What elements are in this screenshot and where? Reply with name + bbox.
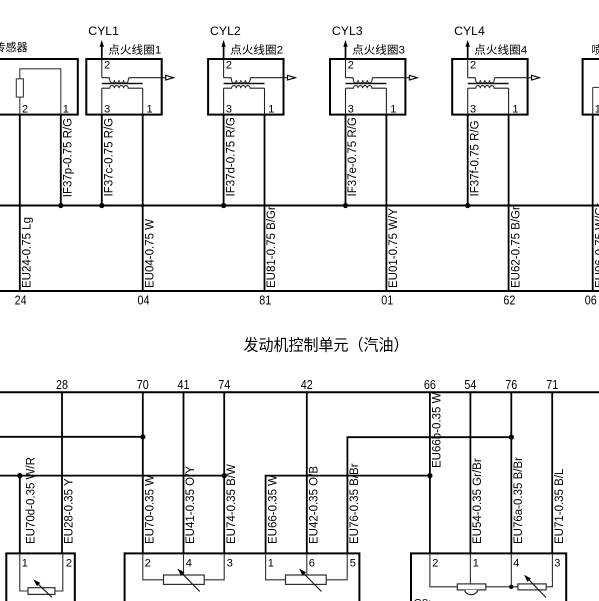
wire coil 4 pin1 -> ECU (EU62-0.75 B/Gr) <box>508 115 510 291</box>
svg-text:1: 1 <box>22 558 28 570</box>
wire sensor pin1 -> bus (IF37p-0.75 R/G) <box>60 115 62 206</box>
injector internal coil (partial) <box>593 87 599 114</box>
svg-text:2: 2 <box>145 558 151 570</box>
coil 4 secondary winding <box>468 86 509 115</box>
box M pin 1 <box>268 558 274 570</box>
svg-text:62: 62 <box>503 294 515 308</box>
label 点火线圈2 <box>230 43 283 57</box>
svg-text:74: 74 <box>218 378 230 392</box>
coil 4 pin 1 <box>512 104 518 116</box>
wire label EU42-0.35 O/B <box>309 466 321 544</box>
wire ECU 41 -> box M pin4 (EU41-0.35 O/Y) <box>183 392 185 553</box>
ECU bottom pin 54 <box>464 378 476 392</box>
wire ECU 71 -> box R pin3 (EU71-0.35 B/L) <box>551 392 553 553</box>
svg-text:6: 6 <box>309 558 315 570</box>
wire label EU76a-0.35 B/Br <box>513 457 525 544</box>
coil 1 output arrow <box>166 75 174 80</box>
svg-text:5: 5 <box>350 558 356 570</box>
wire label EU28-0.35 Y <box>64 478 76 544</box>
ECU top pin 01 <box>381 294 393 308</box>
junction net76 junction <box>509 435 514 440</box>
svg-text:EU81-0.75 B/Gr: EU81-0.75 B/Gr <box>266 206 278 288</box>
wire label IF37e-0.75 R/G <box>347 117 359 196</box>
svg-text:42: 42 <box>301 378 313 392</box>
arrow up CYL3 <box>343 40 347 59</box>
box L internal wiring <box>20 553 63 591</box>
svg-text:EU76-0.35 B/Br: EU76-0.35 B/Br <box>349 463 361 544</box>
svg-text:点火线圈3: 点火线圈3 <box>352 43 405 57</box>
wire net76 branch to box M pin5 <box>347 437 511 553</box>
svg-text:1: 1 <box>390 104 396 116</box>
arrow up CYL2 <box>221 40 225 59</box>
svg-text:IF37p-0.75 R/G: IF37p-0.75 R/G <box>63 118 75 197</box>
coil 1 pin 1 <box>147 104 153 116</box>
svg-text:传感器: 传感器 <box>0 41 28 54</box>
svg-text:1: 1 <box>63 104 69 116</box>
junction sensor pin1 on bus <box>58 203 63 208</box>
wire label EU54-0.35 Gr/Br <box>472 458 484 544</box>
svg-text:IF37e-0.75 R/G: IF37e-0.75 R/G <box>347 117 359 196</box>
wire ECU 66 -> box R pin2 (EU66b-0.35 W) <box>429 392 431 553</box>
svg-text:EU24-0.75 Lg: EU24-0.75 Lg <box>22 217 34 288</box>
injector pin 1 <box>595 104 599 116</box>
label CYL1 <box>88 24 119 38</box>
wire coil 2 pin1 -> ECU (EU81-0.75 B/Gr) <box>264 115 266 291</box>
svg-text:3: 3 <box>348 104 354 116</box>
wire label EU70d-0.35 W/R <box>25 457 37 544</box>
junction coil 3 pin3 on bus <box>343 203 348 208</box>
coil 4 pin 2 <box>470 60 476 72</box>
coil 3 pin 3 <box>348 104 354 116</box>
variable resistor box M left <box>164 569 205 592</box>
variable resistor box M right <box>286 569 327 592</box>
ECU top pin 24 <box>15 294 27 308</box>
coil 3 core <box>346 83 387 85</box>
ignition coil 3 (点火线圈3) box <box>330 59 405 115</box>
svg-text:3: 3 <box>227 558 233 570</box>
svg-text:EU06-0.75 W/Gr: EU06-0.75 W/Gr <box>594 203 599 288</box>
svg-text:EU66b-0.35 W: EU66b-0.35 W <box>432 392 444 468</box>
svg-text:3: 3 <box>470 104 476 116</box>
coil 3 pin 1 <box>390 104 396 116</box>
svg-text:28: 28 <box>56 378 68 392</box>
coil 4 primary winding <box>468 59 533 83</box>
svg-text:EU28-0.35 Y: EU28-0.35 Y <box>64 478 76 544</box>
sensor pin 2 <box>22 104 28 116</box>
label CYL2 <box>210 24 241 38</box>
coil 2 pin 2 <box>226 60 232 72</box>
wire coil 1 pin1 -> ECU (EU04-0.75 W) <box>142 115 144 291</box>
sensor internal resistor <box>16 79 23 97</box>
coil 3 primary winding <box>346 59 411 83</box>
coil 2 output arrow <box>288 75 296 80</box>
junction box R internal junction <box>509 585 513 589</box>
ECU top pin 04 <box>138 294 150 308</box>
svg-text:1: 1 <box>595 104 599 116</box>
svg-text:G8:: G8: <box>414 598 432 601</box>
ECU label 发动机控制单元（汽油） <box>244 336 409 354</box>
svg-text:点火线圈4: 点火线圈4 <box>474 43 527 57</box>
svg-text:EU74-0.35 B/W: EU74-0.35 B/W <box>226 464 238 544</box>
svg-text:EU62-0.75 B/Gr: EU62-0.75 B/Gr <box>510 206 522 288</box>
svg-text:CYL4: CYL4 <box>454 24 485 38</box>
box R pin 4 <box>513 558 519 570</box>
svg-text:01: 01 <box>381 294 393 308</box>
bus wire (ignition coils common) <box>0 205 599 207</box>
svg-text:66: 66 <box>424 378 436 392</box>
svg-text:81: 81 <box>259 294 271 308</box>
svg-text:4: 4 <box>513 558 519 570</box>
wire label IF37c-0.75 R/G <box>104 118 116 197</box>
box L pin 1 <box>22 558 28 570</box>
svg-text:1: 1 <box>473 558 479 570</box>
svg-text:3: 3 <box>226 104 232 116</box>
ECU bottom pin 70 <box>137 378 149 392</box>
svg-text:2: 2 <box>104 60 110 72</box>
wire ECU 28 -> box L pin2 (EU28-0.35 Y) <box>61 392 63 553</box>
svg-text:发动机控制单元（汽油）: 发动机控制单元（汽油） <box>244 336 409 354</box>
wire ECU 54 -> box R pin1 (EU54-0.35 Gr/Br) <box>469 392 471 553</box>
ignition coil 4 (点火线圈4) box <box>452 59 527 115</box>
svg-text:EU04-0.75 W: EU04-0.75 W <box>144 219 156 288</box>
variable resistor box R right <box>518 575 546 598</box>
wire coil 1 pin3 -> bus (IF37c-0.75 R/G) <box>101 115 103 206</box>
coil 3 secondary winding <box>346 86 387 115</box>
svg-text:EU71-0.35 B/L: EU71-0.35 B/L <box>554 468 566 544</box>
wire label EU71-0.35 B/L <box>554 468 566 544</box>
wire label IF37d-0.75 R/G <box>225 117 237 196</box>
wire horizontal net to left edge (EU70d) <box>0 475 224 477</box>
wire ECU 76 -> box R pin4 (EU76a-0.35 B/Br) <box>510 392 512 553</box>
wire injector pin1 -> ECU pin 06 (EU06-0.75 W/Gr) <box>592 115 594 291</box>
svg-text:EU70-0.35 W: EU70-0.35 W <box>145 475 157 544</box>
svg-text:CYL3: CYL3 <box>332 24 363 38</box>
svg-text:1: 1 <box>147 104 153 116</box>
ignition coil 1 (点火线圈1) box <box>86 59 161 115</box>
wire coil 4 pin3 -> bus (IF37f-0.75 R/G) <box>467 115 469 206</box>
wire label EU76-0.35 B/Br <box>349 463 361 544</box>
coil 1 primary winding <box>102 59 167 83</box>
svg-text:点火线圈1: 点火线圈1 <box>108 43 161 57</box>
svg-text:2: 2 <box>432 558 438 570</box>
coil 2 primary winding <box>224 59 289 83</box>
wire label EU66b-0.35 W <box>432 392 444 468</box>
junction coil 1 pin3 on bus <box>99 203 104 208</box>
box R internal wiring <box>430 553 553 586</box>
bottom-left box (sensor with variable resistor) <box>6 553 75 601</box>
svg-text:CYL2: CYL2 <box>210 24 241 38</box>
wire label EU62-0.75 B/Gr <box>510 206 522 288</box>
arrow up CYL1 <box>100 40 104 59</box>
ECU bottom edge <box>0 391 599 393</box>
bottom-middle box (6-pin sensor unit) <box>125 553 360 601</box>
sensor internal wiring <box>20 69 61 115</box>
coil 4 core <box>468 83 509 85</box>
svg-text:IF37d-0.75 R/G: IF37d-0.75 R/G <box>225 117 237 196</box>
coil 3 output arrow <box>409 75 417 80</box>
coil 4 output arrow <box>532 75 540 80</box>
ECU top pin 62 <box>503 294 515 308</box>
ECU top pin 06 <box>585 294 597 308</box>
svg-text:CYL1: CYL1 <box>88 24 119 38</box>
injector box 喷油器 (cut off at right) <box>583 43 599 115</box>
svg-text:EU41-0.35 O/Y: EU41-0.35 O/Y <box>185 466 197 544</box>
wire branch -> box L pin1 (EU70d-0.35 W/R) <box>19 476 21 554</box>
label 点火线圈3 <box>352 43 405 57</box>
box R partial label <box>414 598 432 601</box>
wire label IF37p-0.75 R/G <box>63 118 75 197</box>
svg-text:24: 24 <box>15 294 27 308</box>
svg-text:1: 1 <box>512 104 518 116</box>
wire label EU66-0.35 W <box>267 475 279 544</box>
sensor box 传感器 (cut off at left) <box>0 41 78 115</box>
coil 2 secondary winding <box>224 86 265 115</box>
coil 1 pin 3 <box>104 104 110 116</box>
wire coil 2 pin3 -> bus (IF37d-0.75 R/G) <box>223 115 225 206</box>
wire branch to left edge (net 70) <box>0 436 143 438</box>
coil 2 core <box>224 83 265 85</box>
svg-text:2: 2 <box>470 60 476 72</box>
ECU bottom pin 76 <box>505 378 517 392</box>
junction coil 4 pin3 on bus <box>465 203 470 208</box>
ECU bottom pin 41 <box>178 378 190 392</box>
svg-text:EU76a-0.35 B/Br: EU76a-0.35 B/Br <box>513 457 525 544</box>
wire sensor pin2 -> ECU pin 24 (EU24-0.75 Lg) <box>19 115 21 291</box>
svg-text:IF37c-0.75 R/G: IF37c-0.75 R/G <box>104 118 116 197</box>
svg-text:EU42-0.35 O/B: EU42-0.35 O/B <box>309 466 321 544</box>
ECU bottom pin 71 <box>546 378 558 392</box>
label 点火线圈4 <box>474 43 527 57</box>
box R pin 1 <box>473 558 479 570</box>
coil 1 core <box>102 83 143 85</box>
wire label IF37f-0.75 R/G <box>469 120 481 196</box>
svg-text:3: 3 <box>104 104 110 116</box>
label CYL4 <box>454 24 485 38</box>
svg-text:点火线圈2: 点火线圈2 <box>230 43 283 57</box>
svg-text:EU54-0.35 Gr/Br: EU54-0.35 Gr/Br <box>472 458 484 544</box>
svg-text:2: 2 <box>226 60 232 72</box>
ECU bottom pin 28 <box>56 378 68 392</box>
ECU bottom pin 74 <box>218 378 230 392</box>
svg-text:喷油器: 喷油器 <box>592 43 599 57</box>
ECU top pin 81 <box>259 294 271 308</box>
box M pin 6 <box>309 558 315 570</box>
svg-text:IF37f-0.75 R/G: IF37f-0.75 R/G <box>469 120 481 196</box>
svg-text:2: 2 <box>22 104 28 116</box>
wire label EU01-0.75 W/Y <box>388 208 400 288</box>
sensor pin 1 <box>63 104 69 116</box>
wire net66 horizontal <box>266 476 430 554</box>
svg-text:76: 76 <box>505 378 517 392</box>
bottom-right box (knock sensor + variable resistor) <box>411 553 566 601</box>
box L pin 2 <box>66 558 72 570</box>
wire label EU06-0.75 W/Gr <box>594 203 599 288</box>
box R piezo sensor element <box>457 584 486 595</box>
wire label EU24-0.75 Lg <box>22 217 34 288</box>
box M right internal wiring <box>266 553 348 579</box>
wire label EU81-0.75 B/Gr <box>266 206 278 288</box>
junction net74 junction <box>222 473 227 478</box>
coil 2 pin 3 <box>226 104 232 116</box>
junction EU70d branch <box>17 473 22 478</box>
svg-text:3: 3 <box>554 558 560 570</box>
box M pin 3 <box>227 558 233 570</box>
svg-text:EU70d-0.35 W/R: EU70d-0.35 W/R <box>25 457 37 544</box>
box R pin 3 <box>554 558 560 570</box>
svg-text:06: 06 <box>585 294 597 308</box>
wire ECU 42 -> box M pin6 (EU42-0.35 O/B) <box>306 392 308 553</box>
wire ECU 74 -> box M pin3 (EU74-0.35 B/W) <box>223 392 225 553</box>
box M pin 2 <box>145 558 151 570</box>
svg-text:41: 41 <box>178 378 190 392</box>
ignition coil 2 (点火线圈2) box <box>208 59 283 115</box>
svg-text:70: 70 <box>137 378 149 392</box>
junction coil 2 pin3 on bus <box>221 203 226 208</box>
svg-text:1: 1 <box>268 104 274 116</box>
junction net70 branch <box>140 434 145 439</box>
svg-text:EU66-0.35 W: EU66-0.35 W <box>267 475 279 544</box>
wire label EU74-0.35 B/W <box>226 464 238 544</box>
svg-text:4: 4 <box>186 558 192 570</box>
coil 3 pin 2 <box>348 60 354 72</box>
wire coil 3 pin1 -> ECU (EU01-0.75 W/Y) <box>385 115 387 291</box>
svg-text:EU01-0.75 W/Y: EU01-0.75 W/Y <box>388 208 400 288</box>
ECU top edge <box>0 290 599 292</box>
svg-text:2: 2 <box>348 60 354 72</box>
ECU bottom pin 42 <box>301 378 313 392</box>
wire ECU 70 -> box M pin2 (EU70-0.35 W) <box>142 392 144 553</box>
box M left internal wiring <box>143 553 224 579</box>
box M pin 4 <box>186 558 192 570</box>
label CYL3 <box>332 24 363 38</box>
box M pin 5 <box>350 558 356 570</box>
label 点火线圈1 <box>108 43 161 57</box>
junction net66 junction <box>427 473 432 478</box>
variable resistor box L <box>28 579 55 597</box>
wire label EU70-0.35 W <box>145 475 157 544</box>
wire label EU41-0.35 O/Y <box>185 466 197 544</box>
coil 1 pin 2 <box>104 60 110 72</box>
coil 4 pin 3 <box>470 104 476 116</box>
coil 2 pin 1 <box>268 104 274 116</box>
wire label EU04-0.75 W <box>144 219 156 288</box>
svg-text:54: 54 <box>464 378 476 392</box>
box R pin 2 <box>432 558 438 570</box>
svg-text:1: 1 <box>268 558 274 570</box>
coil 1 secondary winding <box>102 86 143 115</box>
svg-text:71: 71 <box>546 378 558 392</box>
ECU bottom pin 66 <box>424 378 436 392</box>
svg-text:2: 2 <box>66 558 72 570</box>
arrow up CYL4 <box>466 40 470 59</box>
svg-text:04: 04 <box>138 294 150 308</box>
wire coil 3 pin3 -> bus (IF37e-0.75 R/G) <box>345 115 347 206</box>
